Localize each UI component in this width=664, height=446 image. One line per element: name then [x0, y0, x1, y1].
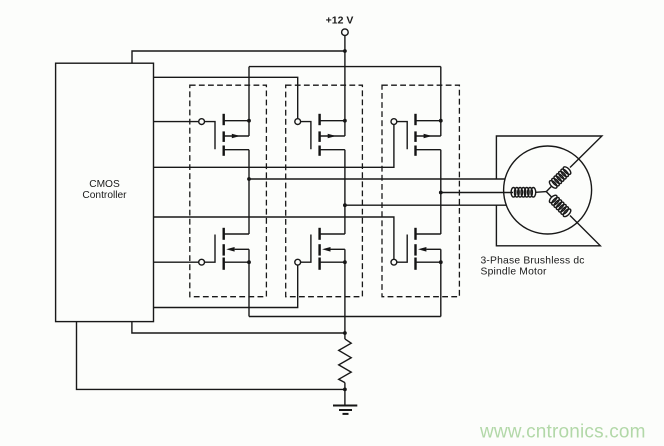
- svg-text:Spindle Motor: Spindle Motor: [481, 267, 548, 278]
- motor housing bottom flag: [496, 205, 600, 246]
- wire: resistor bottom lead: [344, 383, 346, 406]
- winding L1 (left phase coil): [511, 188, 536, 198]
- wire: phase B to motor: [441, 192, 513, 194]
- wire: left half-bridge supply drop: [248, 67, 250, 121]
- wire: sense feedback to controller (resistor top): [132, 322, 345, 333]
- wire: Q4 source drop: [248, 262, 250, 316]
- motor body circle: [504, 146, 592, 234]
- node: +12V tap junction: [343, 49, 347, 53]
- CMOS controller U1 box: [56, 63, 154, 321]
- wire: star point arm upper: [546, 186, 552, 192]
- wire: gate feed Q6 (right bottom) from controller: [154, 217, 394, 259]
- wire: gate feed Q5 (middle bottom) from controller: [154, 265, 298, 307]
- dashed box: driver pair 2: [286, 85, 363, 297]
- node: resistor top junction: [343, 331, 347, 335]
- transistor Q4 (left bottom NMOS): [199, 228, 251, 270]
- svg-text:www.cntronics.com: www.cntronics.com: [479, 421, 646, 442]
- winding L2 (upper phase coil): [548, 166, 572, 190]
- wire: right half-bridge output vertical: [440, 150, 442, 234]
- wire: gate feed Q4 (left bottom) from controller: [154, 261, 199, 263]
- wire: phase C to motor: [345, 204, 507, 206]
- svg-text:3-Phase Brushless dc: 3-Phase Brushless dc: [481, 256, 585, 267]
- wire: Q5 source drop to sense resistor: [344, 262, 346, 339]
- transistor Q3 (right top PMOS): [391, 114, 443, 156]
- motor housing top flag: [496, 136, 602, 179]
- wire: left half-bridge output vertical: [248, 150, 250, 234]
- wire: star point arm lower: [546, 192, 552, 198]
- wire: bottom source rail: [249, 316, 441, 318]
- node: phase C tap: [343, 203, 347, 207]
- transistor Q5 (middle bottom NMOS): [295, 228, 347, 270]
- dashed box: driver pair 1: [190, 85, 267, 297]
- wire: top rail linking left and right half-bridges: [249, 66, 441, 68]
- transistor Q2 (middle top PMOS): [295, 114, 347, 156]
- +12V terminal: [342, 29, 349, 36]
- wire: middle half-bridge output vertical: [344, 150, 346, 234]
- wire: gate feed Q3 (right top) from controller: [154, 125, 394, 168]
- wire: right half-bridge supply drop: [440, 67, 442, 121]
- wire: gate feed Q1 (left top) from controller: [154, 121, 199, 123]
- wire: star point arm left: [536, 191, 547, 194]
- svg-text:CMOS: CMOS: [89, 179, 120, 190]
- dashed box: driver pair 3: [382, 85, 459, 297]
- wire: controller supply from +12V: [132, 51, 345, 63]
- transistor Q1 (left top PMOS): [199, 114, 251, 156]
- transistor Q6 (right bottom NMOS): [391, 228, 443, 270]
- node: phase B tap: [439, 191, 443, 195]
- resistor R1 (current sense): [339, 339, 352, 383]
- wire: feedback from resistor bottom to controller: [77, 322, 345, 390]
- ground: [333, 406, 357, 414]
- wire: Q6 source drop: [440, 262, 442, 316]
- node: phase A tap: [247, 177, 251, 181]
- svg-text:Controller: Controller: [82, 190, 127, 201]
- winding L3 (lower phase coil): [548, 194, 572, 218]
- wire: gate feed Q2 (middle top) from controller: [154, 77, 298, 118]
- svg-text:+12 V: +12 V: [326, 15, 354, 27]
- node: resistor bottom junction: [343, 388, 347, 392]
- wire: +12V vertical feed to middle half-bridge: [344, 36, 346, 121]
- wire: phase A to motor: [249, 178, 505, 180]
